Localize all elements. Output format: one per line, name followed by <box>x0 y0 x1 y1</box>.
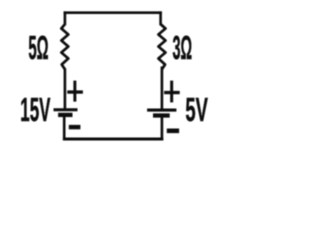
battery V1 long plate (+) <box>54 108 78 111</box>
wire right middle <box>161 67 164 111</box>
battery V2 short plate (-) <box>153 113 170 117</box>
wire bottom <box>63 138 163 141</box>
wire right upper stub <box>159 11 162 25</box>
plus sign of V1 <box>67 81 83 102</box>
battery V2 long plate (+) <box>147 109 176 112</box>
battery V1 short plate (-) <box>58 113 72 117</box>
plus sign of V2 <box>164 81 180 103</box>
svg-text:15V: 15V <box>20 91 50 128</box>
wire right lower stub <box>161 117 164 140</box>
wire left upper stub <box>64 11 67 25</box>
wire top <box>64 11 162 14</box>
wire left middle <box>64 69 67 110</box>
resistor R1 5-ohm zigzag <box>61 24 68 69</box>
svg-text:5V: 5V <box>185 91 208 128</box>
wire left lower stub <box>63 117 66 140</box>
minus sign of V1 <box>69 125 81 129</box>
resistor R2 3-ohm zigzag <box>158 24 165 69</box>
svg-text:3Ω: 3Ω <box>173 29 193 66</box>
svg-text:5Ω: 5Ω <box>28 29 48 66</box>
minus sign of V2 <box>167 129 179 134</box>
